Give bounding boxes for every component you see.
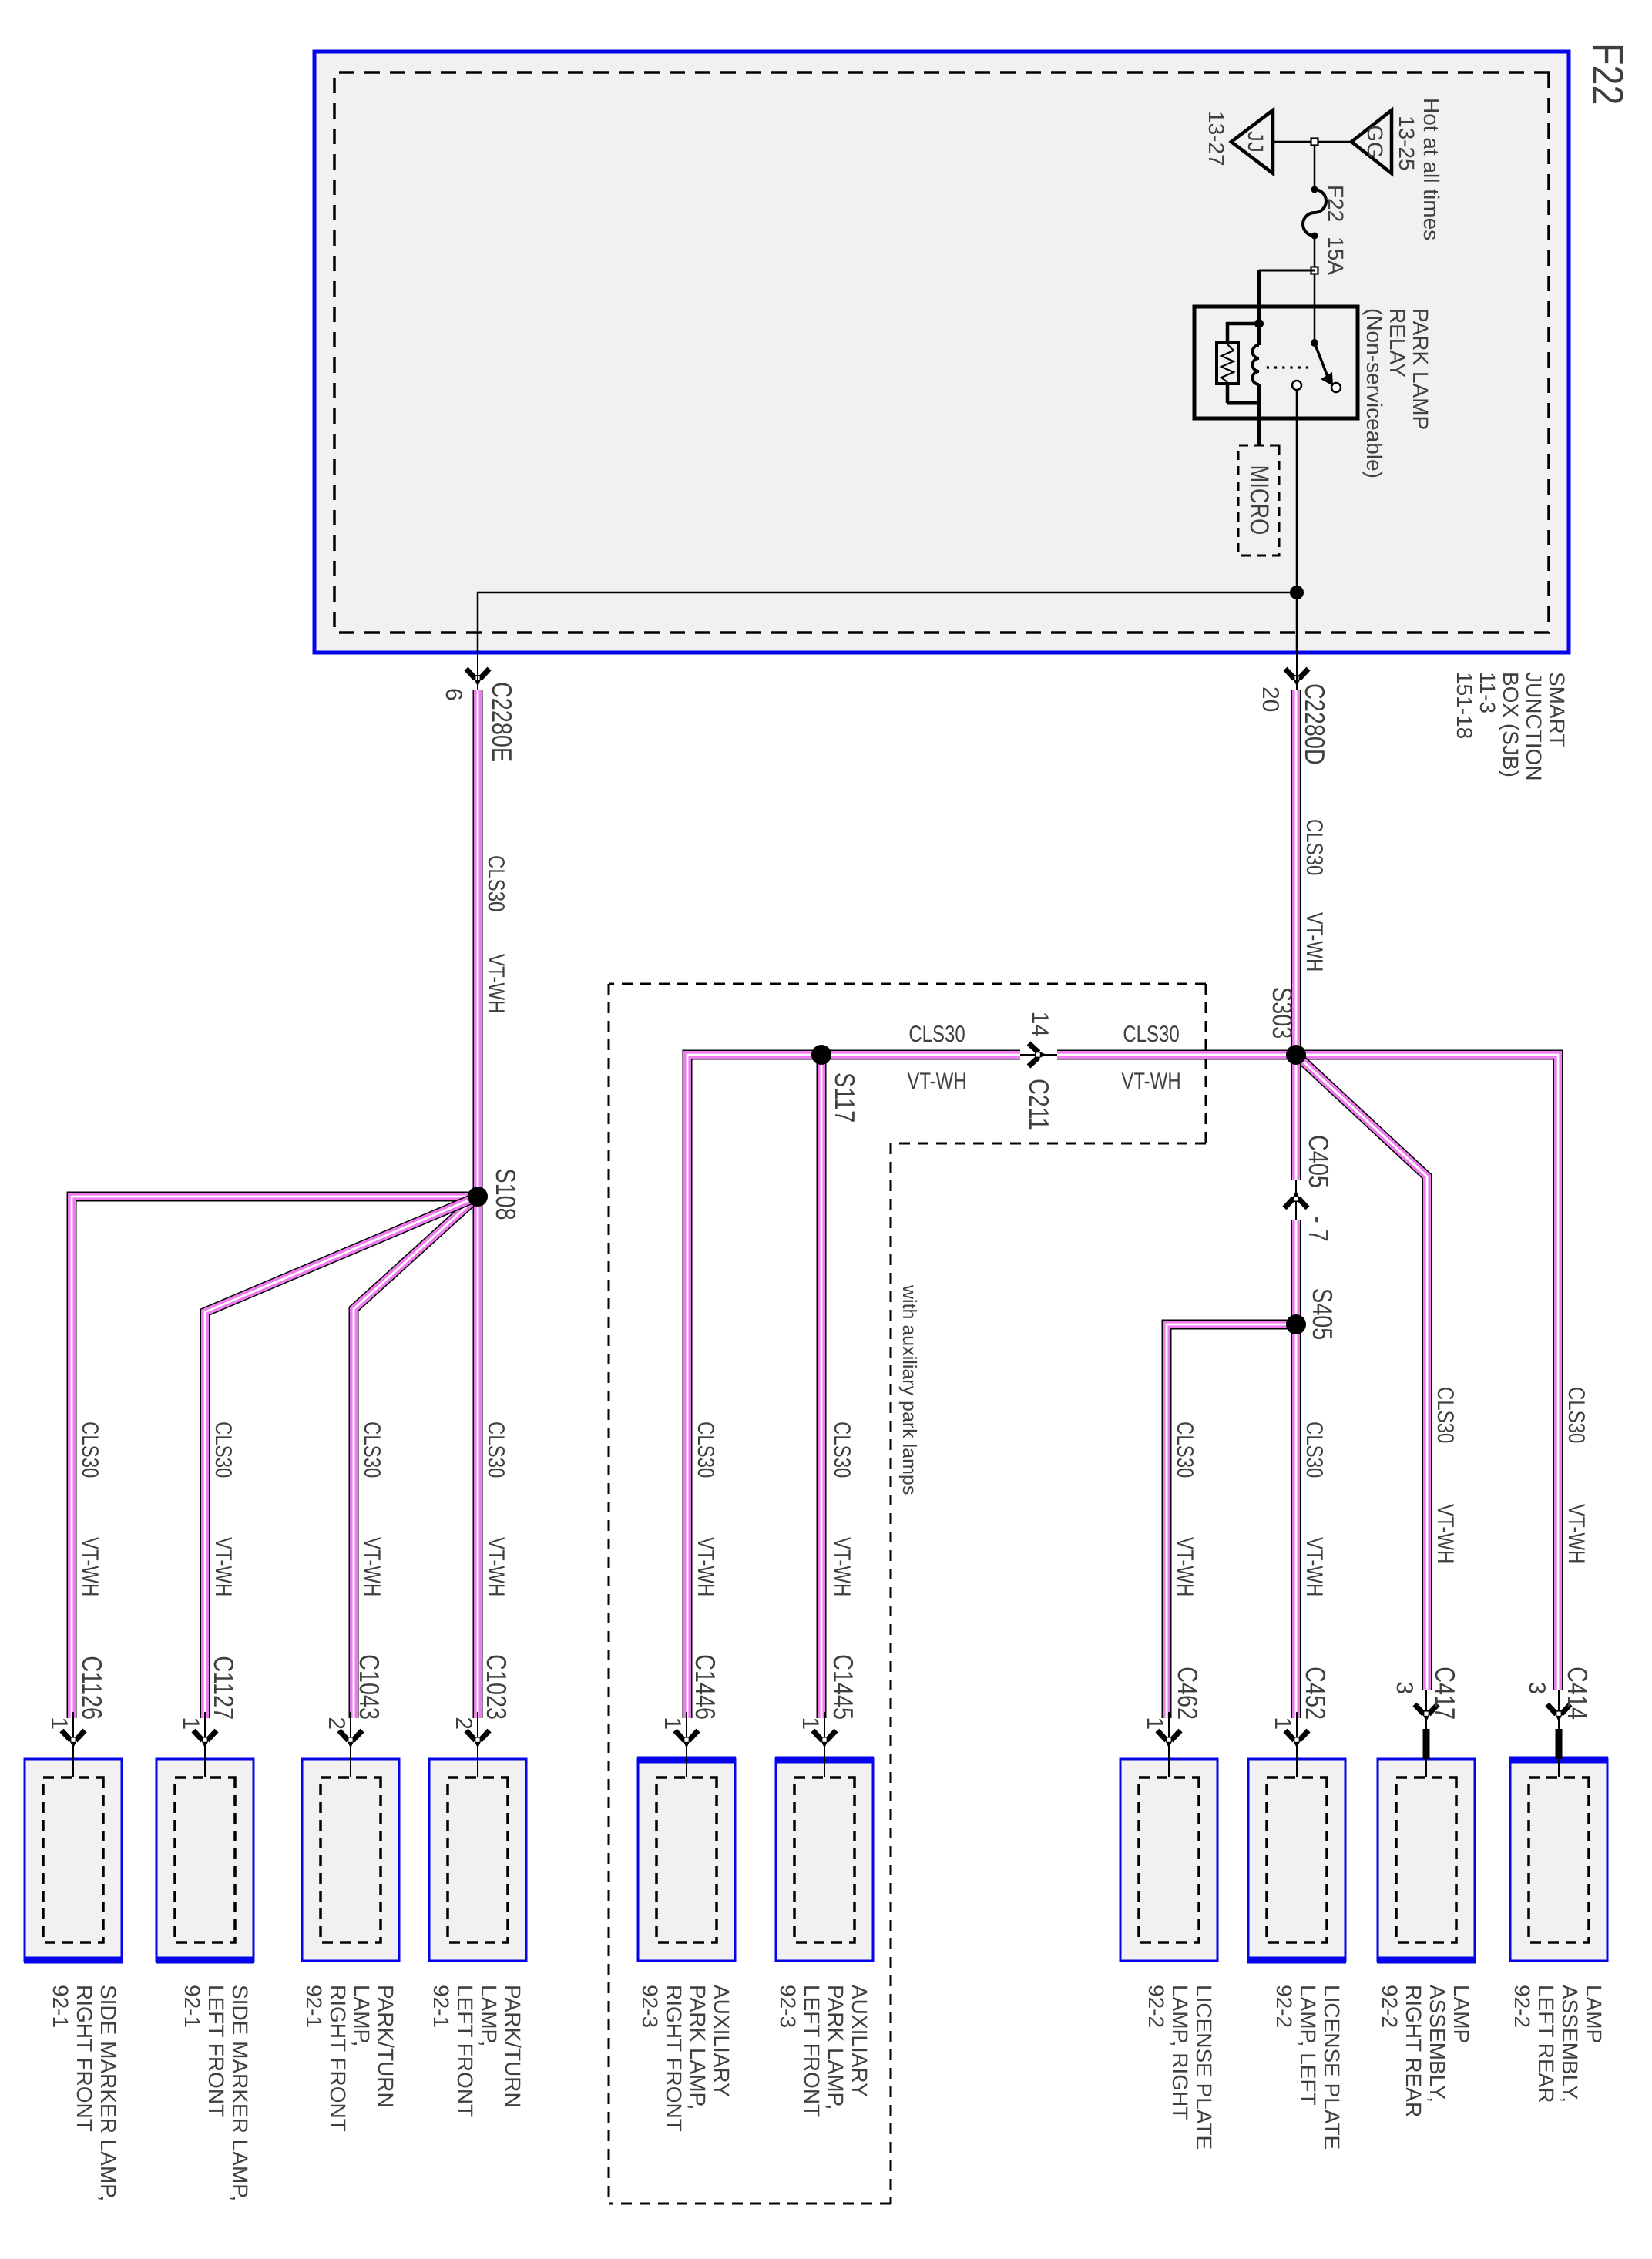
svg-text:1: 1 [178, 1717, 203, 1730]
svg-text:VT-WH: VT-WH [77, 1537, 102, 1596]
svg-text:S108: S108 [490, 1168, 522, 1220]
svg-text:CLS30: CLS30 [1301, 1422, 1327, 1478]
svg-text:C1445: C1445 [828, 1654, 859, 1720]
svg-text:SIDE MARKER LAMP,: SIDE MARKER LAMP, [228, 1985, 252, 2201]
svg-text:CLS30: CLS30 [1563, 1387, 1589, 1443]
svg-text:2: 2 [324, 1717, 349, 1730]
svg-text:92-2: 92-2 [1378, 1985, 1402, 2028]
svg-text:(Non-serviceable): (Non-serviceable) [1362, 308, 1386, 478]
svg-text:C2280E: C2280E [486, 682, 518, 762]
svg-text:C211: C211 [1023, 1079, 1055, 1130]
svg-text:C1446: C1446 [690, 1654, 721, 1720]
svg-text:AUXILIARY: AUXILIARY [710, 1985, 734, 2097]
svg-text:C1023: C1023 [481, 1654, 512, 1720]
svg-text:92-2: 92-2 [1510, 1985, 1534, 2028]
svg-text:RIGHT FRONT: RIGHT FRONT [662, 1985, 686, 2132]
svg-text:PARK LAMP,: PARK LAMP, [824, 1985, 848, 2110]
svg-text:CLS30: CLS30 [483, 855, 509, 911]
svg-text:CLS30: CLS30 [359, 1422, 384, 1478]
svg-text:VT-WH: VT-WH [483, 1537, 509, 1596]
svg-text:ASSEMBLY,: ASSEMBLY, [1425, 1985, 1449, 2103]
svg-text:1: 1 [46, 1717, 72, 1730]
svg-text:VT-WH: VT-WH [1172, 1537, 1197, 1596]
svg-text:1: 1 [1270, 1717, 1295, 1730]
svg-text:CLS30: CLS30 [1301, 819, 1327, 875]
svg-text:F22: F22 [1583, 43, 1632, 106]
svg-text:3: 3 [1392, 1681, 1417, 1694]
svg-text:RELAY: RELAY [1385, 308, 1409, 378]
svg-text:C2280D: C2280D [1299, 683, 1331, 765]
svg-text:ASSEMBLY,: ASSEMBLY, [1558, 1985, 1582, 2103]
svg-text:1: 1 [1142, 1717, 1167, 1730]
svg-text:CLS30: CLS30 [1123, 1022, 1179, 1047]
svg-text:LAMP, LEFT: LAMP, LEFT [1296, 1985, 1320, 2106]
svg-text:C1126: C1126 [76, 1656, 108, 1720]
svg-text:92-3: 92-3 [776, 1985, 800, 2028]
svg-text:92-3: 92-3 [638, 1985, 662, 2028]
svg-text:BOX (SJB): BOX (SJB) [1499, 672, 1523, 777]
svg-text:with auxiliary park lamps: with auxiliary park lamps [898, 1284, 920, 1495]
svg-text:15A: 15A [1324, 237, 1348, 275]
svg-text:JUNCTION: JUNCTION [1522, 672, 1546, 781]
svg-text:CLS30: CLS30 [693, 1422, 718, 1478]
svg-text:VT-WH: VT-WH [907, 1069, 966, 1094]
svg-text:VT-WH: VT-WH [210, 1537, 236, 1596]
svg-text:VT-WH: VT-WH [359, 1537, 384, 1596]
svg-text:92-2: 92-2 [1144, 1985, 1168, 2028]
svg-text:LEFT FRONT: LEFT FRONT [204, 1985, 228, 2117]
svg-text:CLS30: CLS30 [77, 1422, 102, 1478]
svg-text:VT-WH: VT-WH [829, 1537, 855, 1596]
svg-text:SIDE MARKER LAMP,: SIDE MARKER LAMP, [96, 1985, 120, 2201]
svg-text:LEFT REAR: LEFT REAR [1534, 1985, 1558, 2103]
svg-text:LAMP,: LAMP, [350, 1985, 374, 2046]
svg-text:F22: F22 [1324, 185, 1348, 222]
svg-text:CLS30: CLS30 [829, 1422, 855, 1478]
svg-text:LEFT FRONT: LEFT FRONT [453, 1985, 477, 2117]
svg-text:CLS30: CLS30 [908, 1022, 965, 1047]
svg-text:LAMP: LAMP [1449, 1985, 1473, 2043]
svg-text:6: 6 [441, 688, 466, 701]
svg-text:C1127: C1127 [208, 1656, 240, 1720]
svg-text:VT-WH: VT-WH [1301, 1537, 1327, 1596]
svg-text:14: 14 [1027, 1012, 1053, 1037]
svg-text:LICENSE PLATE: LICENSE PLATE [1192, 1985, 1216, 2150]
svg-text:PARK/TURN: PARK/TURN [501, 1985, 525, 2108]
svg-text:JJ: JJ [1244, 131, 1268, 153]
svg-text:- 7: - 7 [1303, 1216, 1335, 1242]
svg-text:LICENSE PLATE: LICENSE PLATE [1320, 1985, 1344, 2150]
svg-text:151-18: 151-18 [1452, 672, 1476, 739]
svg-text:GG: GG [1363, 125, 1387, 159]
svg-text:VT-WH: VT-WH [693, 1537, 718, 1596]
svg-text:92-1: 92-1 [49, 1985, 72, 2028]
svg-text:SMART: SMART [1545, 672, 1569, 747]
svg-text:LEFT FRONT: LEFT FRONT [800, 1985, 824, 2117]
svg-text:VT-WH: VT-WH [1563, 1504, 1589, 1563]
svg-text:11-3: 11-3 [1476, 672, 1499, 713]
svg-text:LAMP: LAMP [1582, 1985, 1606, 2043]
svg-text:Hot at all times: Hot at all times [1419, 98, 1443, 240]
svg-text:C462: C462 [1172, 1667, 1204, 1720]
svg-text:1: 1 [660, 1717, 685, 1730]
svg-text:92-1: 92-1 [302, 1985, 326, 2028]
svg-text:MICRO: MICRO [1244, 465, 1274, 535]
svg-text:LAMP, RIGHT: LAMP, RIGHT [1168, 1985, 1192, 2120]
svg-text:92-1: 92-1 [429, 1985, 453, 2028]
svg-text:RIGHT REAR: RIGHT REAR [1402, 1985, 1425, 2117]
svg-text:2: 2 [451, 1717, 476, 1730]
svg-text:3: 3 [1524, 1681, 1550, 1694]
svg-text:C452: C452 [1300, 1667, 1331, 1720]
svg-text:VT-WH: VT-WH [1432, 1504, 1458, 1563]
svg-text:VT-WH: VT-WH [1301, 912, 1327, 972]
svg-text:VT-WH: VT-WH [1121, 1069, 1180, 1094]
svg-text:1: 1 [797, 1717, 823, 1730]
svg-text:PARK/TURN: PARK/TURN [374, 1985, 398, 2108]
svg-text:PARK LAMP,: PARK LAMP, [686, 1985, 710, 2110]
svg-text:RIGHT FRONT: RIGHT FRONT [326, 1985, 350, 2132]
svg-text:RIGHT FRONT: RIGHT FRONT [72, 1985, 96, 2132]
svg-text:C405: C405 [1303, 1135, 1335, 1188]
svg-text:13-25: 13-25 [1395, 116, 1419, 171]
svg-text:S303: S303 [1267, 987, 1298, 1039]
svg-text:C1043: C1043 [354, 1654, 385, 1720]
svg-text:CLS30: CLS30 [1432, 1387, 1458, 1443]
svg-text:AUXILIARY: AUXILIARY [848, 1985, 871, 2097]
svg-text:CLS30: CLS30 [1172, 1422, 1197, 1478]
svg-text:C414: C414 [1562, 1667, 1593, 1720]
svg-text:CLS30: CLS30 [483, 1422, 509, 1478]
svg-text:92-1: 92-1 [180, 1985, 204, 2028]
svg-text:C417: C417 [1429, 1667, 1461, 1720]
svg-text:S405: S405 [1307, 1288, 1338, 1340]
svg-text:S117: S117 [829, 1072, 861, 1123]
svg-text:13-27: 13-27 [1204, 111, 1228, 166]
svg-text:VT-WH: VT-WH [483, 954, 509, 1013]
svg-text:CLS30: CLS30 [210, 1422, 236, 1478]
svg-text:PARK LAMP: PARK LAMP [1409, 308, 1432, 430]
svg-text:LAMP,: LAMP, [477, 1985, 501, 2046]
svg-text:92-2: 92-2 [1272, 1985, 1296, 2028]
svg-text:20: 20 [1257, 686, 1283, 712]
